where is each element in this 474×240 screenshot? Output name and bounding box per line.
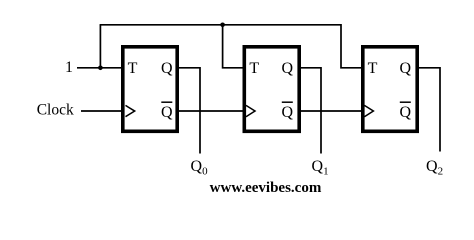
node: junction of 1-input and top rail riser	[98, 66, 103, 71]
wire: U3 Q output to Q2 tap	[418, 68, 440, 152]
wire: U1 Q output to Q0 tap	[178, 68, 200, 154]
node: junction on top rail feeding T of U2	[220, 23, 225, 28]
svg-text:Clock: Clock	[37, 102, 74, 119]
flip-flop U3 body	[363, 47, 417, 132]
svg-text:Q: Q	[161, 104, 173, 121]
wire: drop from top rail to T of U2	[223, 25, 244, 68]
svg-text:www.eevibes.com: www.eevibes.com	[210, 180, 322, 196]
svg-text:Q: Q	[282, 104, 294, 121]
wire: Clock input to U1 clock pin	[81, 110, 122, 112]
svg-text:Q: Q	[161, 60, 173, 77]
wire: U2 Qbar to U3 clock	[300, 110, 363, 112]
svg-text:Q: Q	[400, 104, 412, 121]
flip-flop U1 clock triangle	[126, 105, 135, 116]
wire: U2 Q output to Q1 tap	[300, 68, 322, 154]
wire: 1-input to T of U1	[77, 67, 122, 69]
flip-flop U1 body	[123, 47, 177, 132]
wire: riser from junction up to top rail	[99, 25, 101, 68]
svg-text:Q: Q	[282, 60, 294, 77]
flip-flop U3 clock triangle	[364, 105, 373, 116]
wire: drop from top rail end to T of U3	[341, 24, 362, 68]
flip-flop U2 clock triangle	[246, 105, 255, 116]
wire: U1 Qbar to U2 clock	[178, 110, 244, 112]
svg-text:1: 1	[65, 59, 73, 76]
svg-text:T: T	[368, 60, 378, 77]
svg-text:Q: Q	[400, 60, 412, 77]
svg-text:T: T	[249, 60, 259, 77]
svg-text:T: T	[128, 60, 138, 77]
wire: top rail	[100, 24, 341, 26]
flip-flop U2 body	[244, 47, 299, 132]
